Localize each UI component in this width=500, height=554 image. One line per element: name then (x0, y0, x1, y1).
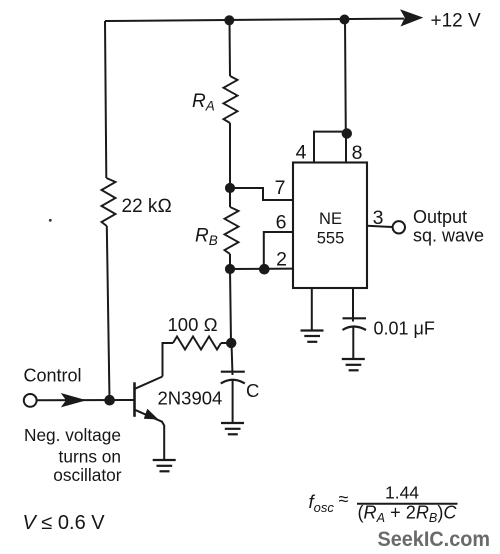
wire pin6 net (264, 232, 293, 269)
svg-text:Control: Control (24, 366, 82, 386)
svg-text:oscillator: oscillator (53, 465, 121, 485)
wire cap 0.01 to ground (352, 327, 354, 358)
wire 100 Ohm left lead to collector (163, 343, 174, 377)
ground cap C (221, 423, 244, 434)
fraction bar (357, 503, 458, 505)
svg-text:3: 3 (373, 207, 384, 229)
wire pin1 ground stub (311, 288, 313, 330)
wire left rail upper (105, 21, 106, 178)
wire node2 down to node C (230, 269, 231, 343)
arrow +12V (400, 9, 423, 26)
node junction 7 (225, 183, 235, 193)
svg-text:(RA + 2RB)C: (RA + 2RB)C (358, 503, 458, 526)
svg-text:+12 V: +12 V (431, 11, 482, 32)
resistor 22 kOhm zigzag (102, 178, 116, 226)
node junction top center (224, 15, 234, 25)
resistor RB zigzag (225, 207, 239, 254)
transistor Q1 base bar (133, 382, 136, 417)
svg-text:V ≤ 0.6 V: V ≤ 0.6 V (23, 512, 106, 534)
transistor Q1 emitter diagonal (135, 410, 164, 459)
arrow emitter (144, 409, 159, 420)
svg-text:NE: NE (319, 210, 342, 228)
svg-text:22 kΩ: 22 kΩ (122, 196, 173, 217)
arrow control input (61, 393, 87, 407)
svg-text:fosc: fosc (309, 491, 335, 515)
svg-text:RB: RB (195, 226, 218, 249)
node junction pins 4-8 (342, 128, 352, 138)
wire left rail lower (107, 226, 110, 400)
svg-text:turns on: turns on (59, 447, 121, 467)
node junction 2 left (225, 264, 235, 274)
resistor 100 Ohm zigzag (173, 337, 221, 350)
wire pin5 stub (352, 288, 354, 322)
svg-text:0.01 μF: 0.01 μF (374, 319, 435, 339)
svg-text:100 Ω: 100 Ω (168, 314, 218, 335)
wire pin3 output (367, 226, 393, 227)
wire center rail top (229, 21, 232, 77)
svg-text:4: 4 (296, 142, 307, 164)
ground emitter (153, 460, 176, 471)
svg-text:2: 2 (276, 249, 287, 271)
terminal output circle (393, 221, 405, 233)
wire pin8 stub (345, 134, 347, 164)
svg-text:555: 555 (317, 230, 345, 248)
node junction base (104, 395, 115, 406)
resistor RA zigzag (224, 76, 238, 123)
wire 100 Ohm right lead (221, 342, 231, 344)
svg-text:8: 8 (352, 142, 363, 164)
capacitor 0.01uF (343, 318, 367, 330)
ground 0.01uF (342, 359, 365, 370)
wire node7 to RB (229, 188, 231, 207)
node junction top right (340, 15, 350, 25)
svg-text:sq. wave: sq. wave (413, 226, 484, 246)
wire cap C to ground (232, 381, 234, 423)
wire RB to node 2 (229, 254, 231, 269)
svg-text:Output: Output (413, 207, 467, 227)
speck artifact (49, 219, 52, 222)
wire RA to node 7 (229, 123, 231, 188)
svg-text:C: C (246, 380, 259, 401)
transistor Q1 collector diagonal (135, 377, 163, 389)
node junction collector/C (226, 338, 236, 348)
svg-text:Neg. voltage: Neg. voltage (24, 425, 121, 445)
wire pin7 net (230, 188, 293, 200)
wire node C to capacitor C (232, 343, 233, 375)
wire pin4 jog (314, 132, 347, 163)
wire top supply rail (105, 19, 404, 21)
wire control input to base (37, 399, 135, 401)
ground pin1 (301, 331, 324, 342)
svg-text:2N3904: 2N3904 (158, 388, 223, 409)
wire pin2 net (230, 268, 293, 270)
terminal control circle (24, 394, 37, 407)
svg-text:≈: ≈ (339, 489, 349, 509)
svg-text:RA: RA (192, 91, 215, 114)
capacitor C (221, 372, 245, 384)
svg-text:SeekIC.com: SeekIC.com (378, 527, 491, 551)
svg-text:1.44: 1.44 (385, 483, 419, 503)
svg-text:7: 7 (275, 177, 286, 199)
svg-text:6: 6 (276, 212, 287, 234)
op-amp U1 NE555 box (293, 163, 367, 289)
node junction 2 right (259, 264, 270, 275)
wire supply branch vertical (344, 19, 347, 133)
